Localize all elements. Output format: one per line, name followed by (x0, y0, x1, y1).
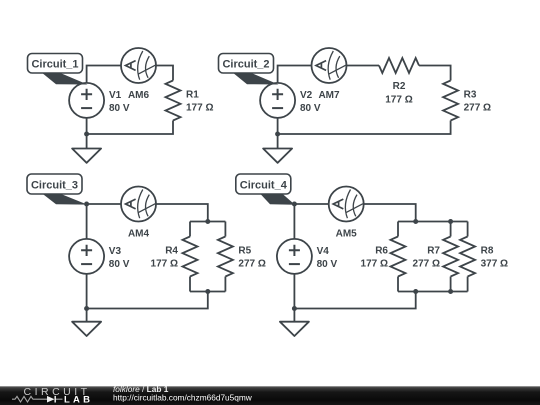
wire (87, 66, 121, 84)
svg-text:177 Ω: 177 Ω (186, 103, 213, 114)
wire (87, 121, 173, 135)
voltage source V1 (69, 83, 104, 118)
wire (189, 277, 191, 292)
ground (72, 149, 101, 163)
wire (156, 204, 208, 222)
wire (86, 118, 88, 149)
wire (347, 65, 380, 67)
ground (72, 322, 101, 336)
svg-text:R6: R6 (375, 246, 388, 257)
wire (294, 203, 328, 205)
resistor R4 (183, 237, 198, 277)
ammeter AM7 (312, 48, 347, 83)
svg-text:AM6: AM6 (128, 90, 150, 101)
footer bar (0, 386, 540, 405)
CircuitLab logo resistor-diode glyph (12, 396, 63, 402)
wire (190, 291, 225, 293)
svg-text:80 V: 80 V (109, 103, 130, 114)
voltage source V4 (277, 239, 312, 274)
node (275, 132, 280, 137)
wire (189, 222, 191, 237)
node (448, 289, 453, 294)
svg-text:R8: R8 (481, 246, 494, 257)
node (205, 219, 210, 224)
wire (156, 66, 173, 81)
wire (364, 204, 416, 222)
svg-text:Circuit_3: Circuit_3 (31, 179, 78, 191)
wire (398, 221, 468, 223)
svg-text:R3: R3 (464, 90, 477, 101)
svg-text:277 Ω: 277 Ω (238, 259, 265, 270)
wire (450, 222, 452, 237)
svg-text:80 V: 80 V (317, 259, 338, 270)
wire (467, 222, 469, 237)
wire (87, 292, 208, 309)
callout Circuit_1 (28, 54, 88, 85)
resistor R1 (166, 81, 181, 121)
node (84, 202, 89, 207)
svg-text:80 V: 80 V (109, 259, 130, 270)
node (413, 219, 418, 224)
svg-text:AM7: AM7 (318, 90, 340, 101)
ground (263, 149, 292, 163)
svg-text:177 Ω: 177 Ω (361, 259, 388, 270)
wire (278, 121, 451, 135)
wire (87, 203, 121, 205)
svg-text:LAB: LAB (64, 394, 93, 405)
wire (224, 222, 226, 237)
node (84, 132, 89, 137)
wire (277, 118, 279, 149)
svg-text:177 Ω: 177 Ω (385, 95, 412, 106)
svg-text:177 Ω: 177 Ω (151, 259, 178, 270)
ammeter AM6 (121, 48, 156, 83)
wire (467, 277, 469, 292)
voltage source V2 (260, 83, 295, 118)
svg-text:Circuit_4: Circuit_4 (240, 179, 288, 191)
wire (419, 66, 451, 81)
resistor R3 (443, 81, 458, 121)
ammeter AM4 (121, 187, 156, 222)
ground (280, 322, 309, 336)
node (292, 306, 297, 311)
voltage source V3 (69, 239, 104, 274)
wire (450, 277, 452, 292)
svg-text:R7: R7 (427, 246, 440, 257)
ammeter AM5 (329, 187, 364, 222)
wire (86, 274, 88, 322)
resistor R2 (379, 58, 419, 73)
node (448, 219, 453, 224)
wire (224, 277, 226, 292)
svg-text:V4: V4 (317, 246, 330, 257)
svg-text:80 V: 80 V (300, 103, 321, 114)
node (292, 202, 297, 207)
svg-text:277 Ω: 277 Ω (464, 103, 491, 114)
svg-text:V3: V3 (109, 246, 122, 257)
svg-text:R4: R4 (165, 246, 178, 257)
svg-text:R5: R5 (238, 246, 251, 257)
svg-text:R2: R2 (393, 81, 406, 92)
svg-text:http://circuitlab.com/chzm66d7: http://circuitlab.com/chzm66d7u5qmw (113, 393, 253, 403)
node (84, 306, 89, 311)
wire (86, 204, 88, 239)
resistor R7 (443, 237, 458, 277)
wire (398, 291, 468, 293)
svg-text:277 Ω: 277 Ω (413, 259, 440, 270)
wire (190, 221, 225, 223)
svg-text:AM4: AM4 (128, 229, 150, 240)
svg-text:Circuit_2: Circuit_2 (222, 59, 269, 71)
wire (397, 277, 399, 292)
resistor R8 (460, 237, 475, 277)
svg-text:Circuit_1: Circuit_1 (31, 59, 78, 71)
svg-text:V2: V2 (300, 90, 313, 101)
wire (294, 292, 415, 309)
svg-text:AM5: AM5 (336, 229, 358, 240)
wire (397, 222, 399, 237)
resistor R6 (391, 237, 406, 277)
callout Circuit_4 (236, 174, 295, 205)
wire (293, 274, 295, 322)
svg-text:V1: V1 (109, 90, 122, 101)
wire (293, 204, 295, 239)
callout Circuit_3 (27, 174, 87, 205)
svg-text:377 Ω: 377 Ω (481, 259, 508, 270)
node (205, 289, 210, 294)
callout Circuit_2 (219, 54, 279, 85)
resistor R5 (218, 237, 233, 277)
node (413, 289, 418, 294)
wire (278, 66, 312, 84)
svg-text:R1: R1 (186, 90, 199, 101)
